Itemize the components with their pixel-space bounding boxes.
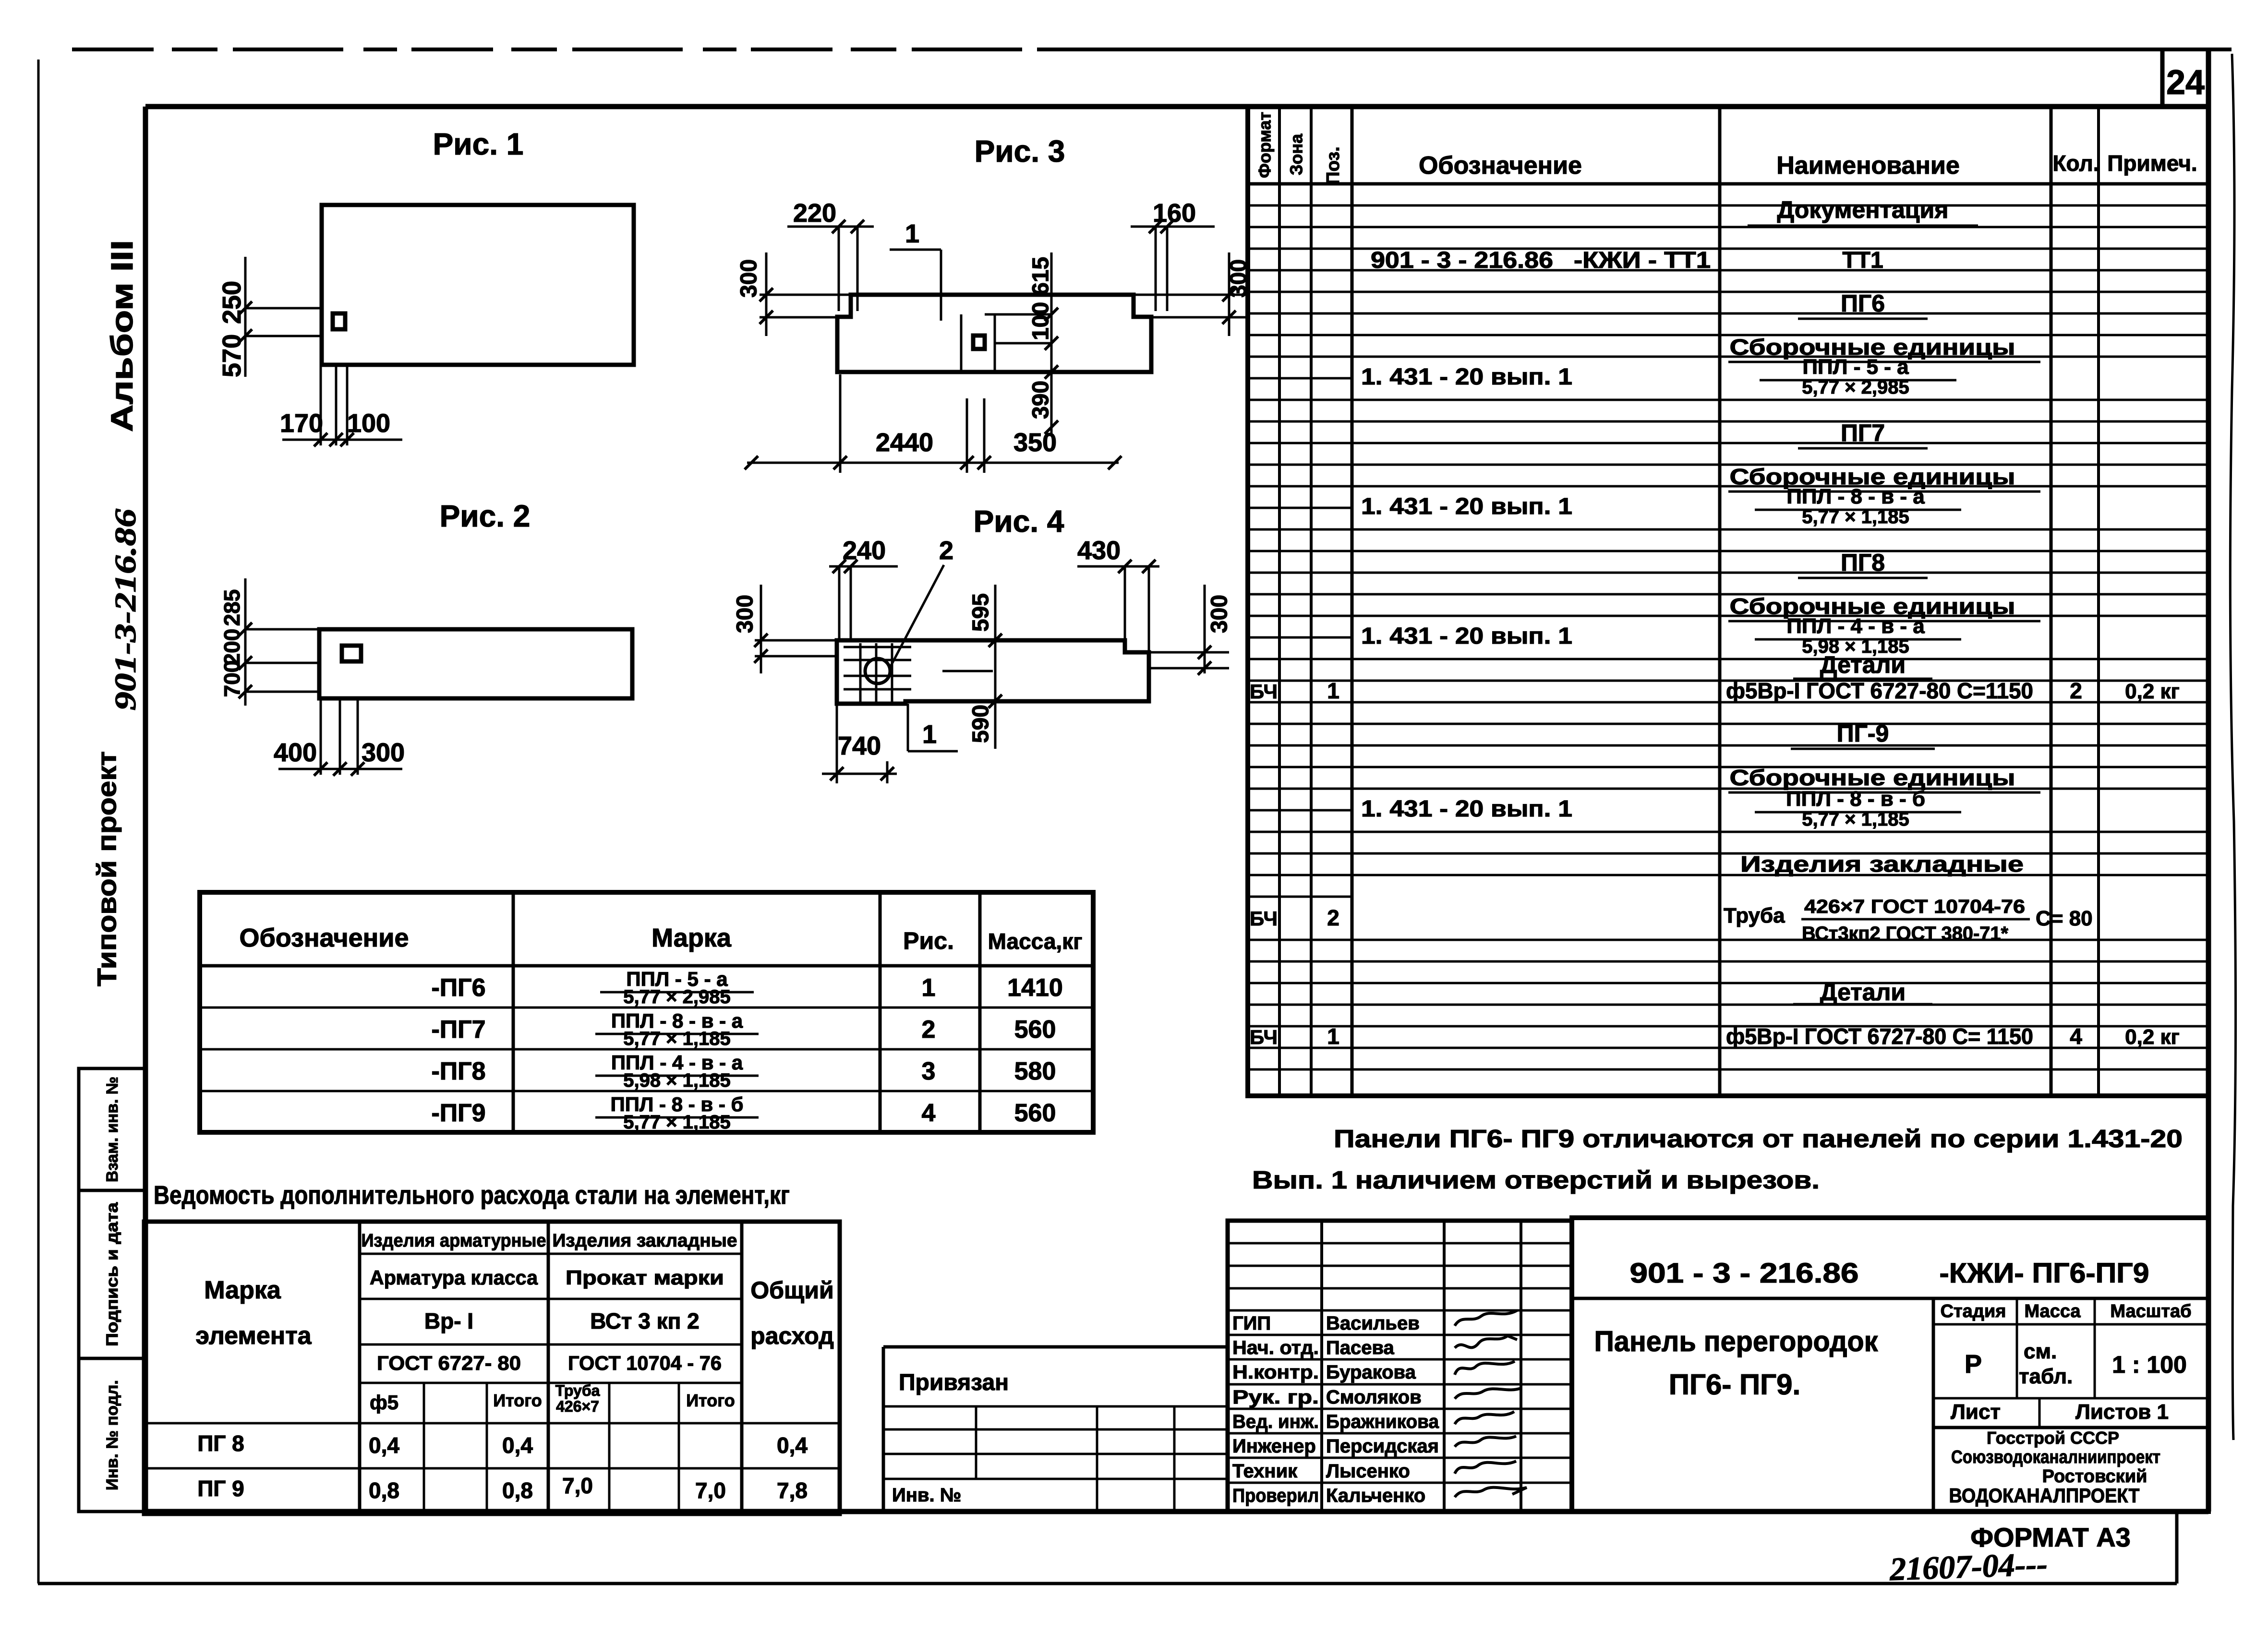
fig4 bottom dimension 740 xyxy=(822,704,897,783)
spec row БЧ 2 Труба xyxy=(1250,896,2093,944)
svg-text:-КЖИ - ТТ1: -КЖИ - ТТ1 xyxy=(1574,248,1711,273)
note text below spec table xyxy=(1252,1125,2183,1194)
svg-text:0,4: 0,4 xyxy=(777,1433,808,1458)
svg-text:Альбом III: Альбом III xyxy=(105,240,139,432)
fig1 left dimension 250 / 570 xyxy=(217,257,321,377)
svg-text:5,77 × 1,185: 5,77 × 1,185 xyxy=(623,1112,731,1133)
spec row 1.431-20 вып.1 / ППЛ-4-в-а xyxy=(1361,614,1961,657)
fig2 bottom dimension 400 / 300 xyxy=(274,698,405,776)
svg-text:-ПГ7: -ПГ7 xyxy=(431,1016,485,1044)
svg-text:Зона: Зона xyxy=(1287,133,1306,175)
svg-text:0,8: 0,8 xyxy=(369,1478,399,1503)
signature row Инженер Персидская xyxy=(1232,1436,1516,1457)
marks table row ПГ8 xyxy=(431,1051,1056,1091)
fig2 left dimension 285 / 200 / 700 xyxy=(219,578,319,706)
margin text 901-3-216.86 (handwritten, rotated) xyxy=(109,509,142,710)
svg-text:Прокат марки: Прокат марки xyxy=(566,1266,724,1289)
svg-text:4: 4 xyxy=(922,1099,936,1127)
title block document number xyxy=(1630,1258,2149,1289)
spec table row grid xyxy=(1248,205,2208,1069)
svg-text:Инв. №: Инв. № xyxy=(892,1485,961,1506)
signature row Нач. отд. Пасева xyxy=(1232,1336,1517,1358)
svg-text:7,0: 7,0 xyxy=(562,1473,593,1498)
spec table headers xyxy=(1255,112,2197,185)
svg-text:ф5Вр-I ГОСТ 6727-80 С=1150: ф5Вр-I ГОСТ 6727-80 С=1150 xyxy=(1726,678,2033,703)
svg-text:Арматура класса: Арматура класса xyxy=(370,1266,538,1289)
steel table row ПГ8 xyxy=(197,1431,808,1458)
svg-text:ВСт 3 кп 2: ВСт 3 кп 2 xyxy=(590,1308,700,1333)
svg-text:Пасева: Пасева xyxy=(1326,1337,1395,1358)
svg-text:-ПГ8: -ПГ8 xyxy=(431,1057,485,1085)
svg-text:Итого: Итого xyxy=(493,1391,542,1410)
svg-text:Детали: Детали xyxy=(1820,651,1906,678)
margin text Альбом III (rotated) xyxy=(105,240,139,432)
svg-text:Нач. отд.: Нач. отд. xyxy=(1232,1337,1319,1358)
fig1 embedded plate hole xyxy=(333,313,345,329)
svg-text:ППЛ - 8 - в - а: ППЛ - 8 - в - а xyxy=(1786,485,1925,508)
svg-text:Персидская: Персидская xyxy=(1326,1436,1439,1457)
signature row Техник Лысенко xyxy=(1232,1461,1516,1482)
svg-text:5,77 × 1,185: 5,77 × 1,185 xyxy=(1802,809,1909,830)
steel table headers xyxy=(195,1231,833,1415)
fig4 leader 1 xyxy=(908,704,958,751)
signature row Вед. инж. Бражникова xyxy=(1232,1411,1514,1432)
svg-text:-КЖИ- ПГ6-ПГ9: -КЖИ- ПГ6-ПГ9 xyxy=(1940,1258,2149,1289)
spec row Детали 2 xyxy=(1793,979,1932,1006)
svg-text:Васильев: Васильев xyxy=(1326,1313,1420,1334)
svg-text:ППЛ - 4 - в - а: ППЛ - 4 - в - а xyxy=(1786,614,1925,638)
svg-text:5,77 × 1,185: 5,77 × 1,185 xyxy=(623,1028,731,1049)
svg-text:590: 590 xyxy=(968,705,994,743)
svg-text:ПГ7: ПГ7 xyxy=(1841,420,1885,446)
svg-text:ПГ6- ПГ9.: ПГ6- ПГ9. xyxy=(1669,1368,1800,1401)
svg-text:100: 100 xyxy=(1028,302,1054,340)
svg-text:1: 1 xyxy=(922,974,936,1002)
svg-text:1. 431 - 20 вып. 1: 1. 431 - 20 вып. 1 xyxy=(1361,364,1572,390)
binding box Привязан xyxy=(883,1347,1228,1512)
svg-text:БЧ: БЧ xyxy=(1250,1026,1278,1048)
spec row 1.431-20 вып.1 / ППЛ-5-а xyxy=(1361,355,1956,398)
svg-text:7,0: 7,0 xyxy=(695,1478,726,1503)
svg-text:580: 580 xyxy=(1014,1057,1056,1085)
spec row 1.431-20 вып.1 / ППЛ-8-в-а xyxy=(1361,485,1961,528)
svg-text:300: 300 xyxy=(733,595,758,633)
svg-text:Изделия арматурные: Изделия арматурные xyxy=(362,1231,546,1251)
fig1 bottom dimension 170 / 100 xyxy=(280,366,402,446)
svg-text:7,8: 7,8 xyxy=(777,1478,808,1503)
svg-text:Ростовский: Ростовский xyxy=(2042,1466,2147,1487)
svg-text:Госстрой СССР: Госстрой СССР xyxy=(1987,1428,2119,1448)
spec row ПГ8 xyxy=(1798,549,1928,578)
svg-text:Рук. гр.: Рук. гр. xyxy=(1232,1387,1319,1408)
signature row Н.контр. Буракова xyxy=(1232,1361,1515,1383)
left border line xyxy=(37,60,40,1584)
svg-text:Привязан: Привязан xyxy=(899,1370,1009,1395)
spec row Сборочные единицы 1 xyxy=(1728,335,2040,362)
steel table grid xyxy=(144,1222,840,1514)
marks table outline xyxy=(200,892,1093,1132)
spec table header row line xyxy=(1248,182,2208,186)
svg-text:расход: расход xyxy=(750,1322,834,1349)
title block grid xyxy=(1572,1298,2208,1512)
spec row ПГ7 xyxy=(1798,420,1928,448)
signature row ГИП Васильев xyxy=(1232,1310,1517,1334)
svg-text:0,8: 0,8 xyxy=(502,1478,533,1503)
svg-text:430: 430 xyxy=(1077,536,1121,565)
binding box Инв. № xyxy=(892,1485,961,1506)
svg-text:см.: см. xyxy=(2024,1340,2057,1363)
margin box Инв. № подл. xyxy=(79,1358,145,1512)
title block name Панель перегородок ПГ6-ПГ9 xyxy=(1594,1325,1879,1401)
spec row Изделия закладные xyxy=(1740,852,2024,876)
svg-text:300: 300 xyxy=(362,738,405,767)
svg-text:Рис. 3: Рис. 3 xyxy=(975,134,1065,168)
svg-text:ПГ8: ПГ8 xyxy=(1841,549,1885,576)
svg-text:ППЛ - 5 - а: ППЛ - 5 - а xyxy=(1802,355,1909,379)
svg-text:300: 300 xyxy=(736,259,762,298)
svg-text:2: 2 xyxy=(1327,905,1339,930)
svg-text:-ПГ6: -ПГ6 xyxy=(431,974,485,1002)
svg-text:Марка: Марка xyxy=(651,924,732,952)
fig3 dimension 220 xyxy=(787,199,874,311)
svg-text:Буракова: Буракова xyxy=(1326,1362,1416,1383)
marks table headers xyxy=(239,924,1082,954)
spec row Сборочные единицы 4 xyxy=(1728,765,2040,792)
svg-text:ПГ-9: ПГ-9 xyxy=(1837,720,1889,747)
svg-text:Листов 1: Листов 1 xyxy=(2075,1400,2169,1424)
svg-text:426×7 ГОСТ 10704-76: 426×7 ГОСТ 10704-76 xyxy=(1804,896,2025,917)
svg-text:Лист: Лист xyxy=(1951,1400,2001,1424)
spec row 1.431-20 вып.1 / ППЛ-8-в-б xyxy=(1361,787,1961,830)
margin text Типовой проект (rotated) xyxy=(92,751,122,986)
steel consumption table caption xyxy=(154,1181,790,1210)
fig4 left dimension 300 xyxy=(733,585,837,673)
svg-text:ТТ1: ТТ1 xyxy=(1842,248,1883,273)
svg-text:1: 1 xyxy=(1327,678,1339,703)
svg-text:Кальченко: Кальченко xyxy=(1326,1485,1425,1506)
fig3 panel section outline xyxy=(837,295,1151,372)
svg-text:3: 3 xyxy=(922,1057,936,1085)
svg-text:Примеч.: Примеч. xyxy=(2107,151,2197,176)
svg-text:Лысенко: Лысенко xyxy=(1326,1461,1410,1482)
svg-text:901-3-216.86: 901-3-216.86 xyxy=(109,509,142,710)
right border line (hand-drawn) xyxy=(2230,54,2235,1440)
svg-text:2440: 2440 xyxy=(876,428,933,457)
steel table row ПГ9 xyxy=(197,1473,808,1503)
spec row Документация xyxy=(1748,196,1978,226)
spec row Сборочные единицы 3 xyxy=(1728,594,2040,621)
margin box Взам. инв. № xyxy=(79,1068,145,1190)
marks table grid xyxy=(200,892,1093,1132)
svg-text:Подпись и дата: Подпись и дата xyxy=(103,1202,121,1346)
svg-text:ПГ 8: ПГ 8 xyxy=(197,1431,244,1456)
spec row ПГ-9 xyxy=(1791,720,1935,749)
fig4 middle dimensions 595 / 590 xyxy=(942,585,1002,749)
svg-text:Наименование: Наименование xyxy=(1776,152,1960,180)
svg-text:Рис.: Рис. xyxy=(903,927,954,954)
svg-text:Типовой проект: Типовой проект xyxy=(92,751,122,986)
svg-text:-ПГ9: -ПГ9 xyxy=(431,1099,485,1127)
svg-text:24: 24 xyxy=(2166,63,2205,102)
title block organization xyxy=(1949,1428,2161,1507)
signature table grid xyxy=(1228,1221,1572,1512)
svg-text:0,4: 0,4 xyxy=(369,1433,399,1458)
svg-text:Итого: Итого xyxy=(686,1391,735,1410)
svg-text:21607-04---: 21607-04--- xyxy=(1889,1546,2048,1587)
svg-text:5,77 × 2,985: 5,77 × 2,985 xyxy=(623,986,731,1008)
fig3 bottom dimension 2440 / 350 xyxy=(745,374,1122,473)
svg-text:ф5: ф5 xyxy=(370,1391,398,1414)
fig3 dimension 160 xyxy=(1131,199,1215,311)
svg-text:БЧ: БЧ xyxy=(1250,680,1278,703)
svg-text:Документация: Документация xyxy=(1777,196,1949,223)
svg-text:Марка: Марка xyxy=(204,1276,281,1304)
title block sheet row xyxy=(1951,1400,2169,1424)
svg-text:Детали: Детали xyxy=(1820,979,1906,1006)
svg-text:615: 615 xyxy=(1028,257,1054,295)
svg-text:Изделия закладные: Изделия закладные xyxy=(553,1231,737,1251)
signature table outline xyxy=(1228,1221,1572,1512)
svg-text:Кол.: Кол. xyxy=(2052,151,2099,176)
fig2 title Рис. 2 xyxy=(440,499,531,533)
svg-text:табл.: табл. xyxy=(2019,1365,2073,1388)
svg-text:1. 431 - 20 вып. 1: 1. 431 - 20 вып. 1 xyxy=(1361,796,1572,822)
spec row БЧ 1 ф5Вр-I 4 0,2кг xyxy=(1250,1024,2180,1049)
svg-text:2: 2 xyxy=(2070,678,2082,703)
binding box grid xyxy=(883,1406,1228,1512)
svg-text:560: 560 xyxy=(1014,1016,1056,1044)
marks table row ПГ6 xyxy=(431,968,1062,1008)
svg-text:Проверил: Проверил xyxy=(1232,1485,1319,1506)
svg-text:700: 700 xyxy=(219,660,244,697)
spec table column lines xyxy=(1279,107,2099,1096)
svg-text:Техник: Техник xyxy=(1232,1461,1298,1482)
fig4 pipe circle xyxy=(865,659,890,684)
svg-text:Взам. инв. №: Взам. инв. № xyxy=(103,1077,121,1182)
svg-text:4: 4 xyxy=(2070,1024,2082,1049)
svg-text:426×7: 426×7 xyxy=(556,1398,599,1415)
svg-text:Масштаб: Масштаб xyxy=(2110,1301,2191,1321)
svg-text:1. 431 - 20 вып. 1: 1. 431 - 20 вып. 1 xyxy=(1361,624,1572,649)
svg-text:Н.контр.: Н.контр. xyxy=(1232,1362,1319,1383)
handwritten archive number 21607-04 xyxy=(1889,1546,2048,1587)
fig1 panel outline xyxy=(322,205,634,365)
fig4 title Рис. 4 xyxy=(974,504,1064,539)
fig1 title Рис. 1 xyxy=(433,127,524,161)
margin box Подпись и дата xyxy=(79,1190,145,1358)
svg-text:Сборочные единицы: Сборочные единицы xyxy=(1730,765,2015,790)
svg-text:901 - 3 - 216.86: 901 - 3 - 216.86 xyxy=(1630,1258,1859,1289)
svg-text:0,2 кг: 0,2 кг xyxy=(2125,680,2180,703)
format note ФОРМАТ А3 xyxy=(1970,1522,2131,1552)
svg-text:Союзводоканалниипроект: Союзводоканалниипроект xyxy=(1951,1447,2160,1467)
svg-text:Обозначение: Обозначение xyxy=(1419,152,1582,180)
svg-text:Вед. инж.: Вед. инж. xyxy=(1232,1411,1319,1432)
top border line (dashed) xyxy=(72,48,2232,51)
svg-text:Труба: Труба xyxy=(1724,904,1785,927)
svg-text:Рис. 1: Рис. 1 xyxy=(433,127,524,161)
svg-text:ВОДОКАНАЛПРОЕКТ: ВОДОКАНАЛПРОЕКТ xyxy=(1949,1484,2140,1507)
fig2 panel outline xyxy=(319,629,632,698)
marks table row ПГ7 xyxy=(431,1009,1056,1049)
svg-text:ПГ 9: ПГ 9 xyxy=(197,1476,244,1501)
svg-text:С= 80: С= 80 xyxy=(2036,907,2093,930)
svg-text:0,2 кг: 0,2 кг xyxy=(2125,1025,2180,1049)
svg-text:350: 350 xyxy=(1013,428,1057,457)
svg-text:Вып. 1 наличием отверстий: Вып. 1 наличием отверстий и вырезов. xyxy=(1252,1166,1820,1194)
steel table outline xyxy=(144,1222,840,1514)
svg-text:Бражникова: Бражникова xyxy=(1326,1411,1439,1432)
spec row Детали 1 xyxy=(1793,651,1932,679)
svg-text:5,77 × 1,185: 5,77 × 1,185 xyxy=(1802,506,1909,528)
svg-text:Панели ПГ6- ПГ9 отличаются: Панели ПГ6- ПГ9 отличаются от панелей по… xyxy=(1334,1125,2183,1153)
svg-text:570: 570 xyxy=(217,334,246,377)
svg-text:Формат: Формат xyxy=(1255,112,1275,178)
svg-text:Рис. 2: Рис. 2 xyxy=(440,499,531,533)
title block stage/mass/scale xyxy=(1941,1301,2192,1388)
svg-text:1. 431 - 20 вып. 1: 1. 431 - 20 вып. 1 xyxy=(1361,494,1572,519)
svg-text:901 - 3 - 216.86: 901 - 3 - 216.86 xyxy=(1371,248,1553,273)
sheet number box 24 xyxy=(2162,51,2205,107)
svg-text:БЧ: БЧ xyxy=(1250,907,1278,930)
svg-text:5,77 × 2,985: 5,77 × 2,985 xyxy=(1802,377,1909,398)
fig3 leader 1 xyxy=(890,219,941,321)
svg-text:элемента: элемента xyxy=(195,1322,312,1350)
svg-text:Поз.: Поз. xyxy=(1323,146,1343,184)
fig4 panel section outline xyxy=(837,640,1149,704)
fig4 dimension 430 xyxy=(1077,536,1159,652)
svg-text:Ведомость дополнительного ра: Ведомость дополнительного расхода стали … xyxy=(154,1181,790,1210)
svg-text:740: 740 xyxy=(838,732,881,760)
svg-text:ПГ6: ПГ6 xyxy=(1841,290,1885,317)
svg-text:390: 390 xyxy=(1028,381,1054,419)
svg-text:Труба: Труба xyxy=(555,1382,600,1399)
svg-text:Изделия закладные: Изделия закладные xyxy=(1740,852,2024,876)
svg-text:1410: 1410 xyxy=(1007,974,1063,1002)
svg-text:Инв. № подл.: Инв. № подл. xyxy=(103,1380,121,1490)
svg-text:285: 285 xyxy=(219,589,244,626)
svg-text:100: 100 xyxy=(347,409,390,438)
fig2 embedded plate hole xyxy=(342,646,361,661)
spec row 901-3-216.86 ТТ1 xyxy=(1371,248,1883,273)
fig4 right dimension 300 xyxy=(1149,585,1232,675)
svg-text:ГОСТ 6727- 80: ГОСТ 6727- 80 xyxy=(377,1352,521,1374)
marks table row ПГ9 xyxy=(431,1093,1056,1133)
svg-text:Стадия: Стадия xyxy=(1941,1301,2006,1321)
svg-text:Р: Р xyxy=(1965,1350,1982,1379)
svg-text:1: 1 xyxy=(905,219,919,248)
svg-text:Общий: Общий xyxy=(750,1277,833,1304)
svg-text:170: 170 xyxy=(280,409,323,438)
svg-text:Панель перегородок: Панель перегородок xyxy=(1594,1325,1879,1357)
svg-text:220: 220 xyxy=(793,199,836,228)
fig3 hole with flanking lines xyxy=(961,314,995,371)
spec row Сборочные единицы 2 xyxy=(1728,464,2040,492)
svg-text:Рис. 4: Рис. 4 xyxy=(974,504,1064,539)
svg-text:1 : 100: 1 : 100 xyxy=(2112,1351,2187,1378)
svg-text:ГОСТ 10704 - 76: ГОСТ 10704 - 76 xyxy=(568,1352,722,1374)
fig4 embedded pipe grid xyxy=(844,643,911,702)
title block outline xyxy=(1572,1218,2208,1512)
fig4 dimension 240 xyxy=(829,536,898,640)
spec row ПГ6 xyxy=(1798,290,1928,319)
svg-text:Масса: Масса xyxy=(2024,1301,2081,1321)
svg-text:Смоляков: Смоляков xyxy=(1326,1387,1422,1408)
svg-text:0,4: 0,4 xyxy=(502,1433,533,1458)
svg-text:Обозначение: Обозначение xyxy=(239,924,409,952)
svg-text:Вр- I: Вр- I xyxy=(424,1308,473,1333)
svg-text:250: 250 xyxy=(217,281,246,324)
spec table outline xyxy=(1248,107,2208,1096)
svg-text:595: 595 xyxy=(968,593,994,632)
svg-text:560: 560 xyxy=(1014,1099,1056,1127)
svg-text:ГИП: ГИП xyxy=(1232,1313,1271,1334)
svg-text:1: 1 xyxy=(1327,1024,1339,1049)
svg-text:Масса,кг: Масса,кг xyxy=(988,929,1083,954)
svg-text:2: 2 xyxy=(939,536,953,565)
spec row БЧ 1 ф5Вр-I 2 0,2кг xyxy=(1250,678,2180,703)
fig4 leader 2 xyxy=(890,536,953,668)
fig3 left dimension 300 xyxy=(736,252,851,336)
svg-text:ф5Вр-I ГОСТ 6727-80 С= 1150: ф5Вр-I ГОСТ 6727-80 С= 1150 xyxy=(1726,1024,2033,1049)
svg-text:5,98 × 1,185: 5,98 × 1,185 xyxy=(623,1070,731,1091)
svg-text:ППЛ - 8 - в - б: ППЛ - 8 - в - б xyxy=(1786,787,1925,811)
fig3 title Рис. 3 xyxy=(975,134,1065,168)
svg-text:240: 240 xyxy=(843,536,886,565)
svg-text:2: 2 xyxy=(922,1016,936,1044)
svg-text:200: 200 xyxy=(219,629,244,666)
signature row Проверил Кальченко xyxy=(1232,1485,1527,1506)
signature row Рук. гр. Смоляков xyxy=(1232,1387,1521,1408)
fig3 right dimension 300 xyxy=(1134,252,1252,336)
svg-text:400: 400 xyxy=(274,738,317,767)
svg-text:300: 300 xyxy=(1207,595,1232,633)
fig3 middle dimensions 615 / 100 / 390 xyxy=(985,252,1058,434)
bottom edge line xyxy=(38,1512,2177,1584)
svg-text:Инженер: Инженер xyxy=(1232,1436,1316,1457)
svg-text:1: 1 xyxy=(922,720,937,749)
svg-text:ВСт3кп2 ГОСТ 380-71*: ВСт3кп2 ГОСТ 380-71* xyxy=(1802,923,2008,944)
